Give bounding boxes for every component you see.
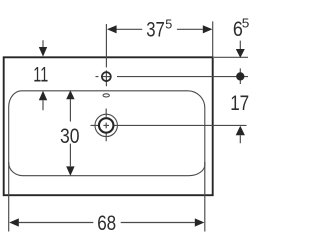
svg-text:37: 37 [146, 18, 165, 42]
svg-text:5: 5 [165, 17, 172, 32]
svg-text:11: 11 [33, 62, 48, 86]
svg-text:17: 17 [230, 91, 249, 115]
svg-text:30: 30 [60, 124, 80, 148]
svg-text:68: 68 [97, 211, 116, 235]
svg-text:5: 5 [242, 16, 250, 31]
